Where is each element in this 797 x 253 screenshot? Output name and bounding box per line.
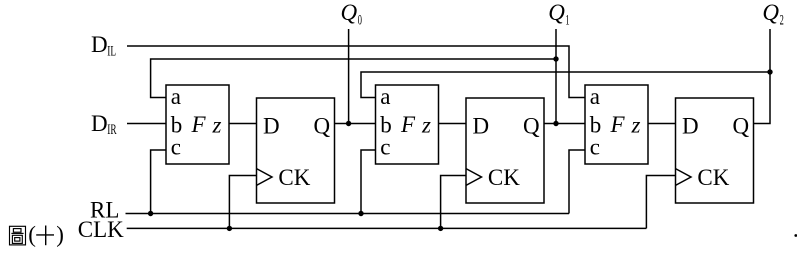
svg-text:(: (	[28, 222, 36, 247]
svg-text:IR: IR	[107, 121, 117, 138]
svg-text:D: D	[91, 111, 108, 136]
svg-text:D: D	[682, 114, 699, 139]
svg-text:IL: IL	[107, 42, 116, 59]
svg-text:Q: Q	[341, 0, 358, 25]
svg-text:2: 2	[780, 11, 784, 28]
svg-text:CLK: CLK	[78, 217, 124, 242]
svg-text:a: a	[380, 84, 390, 109]
svg-text:z: z	[631, 113, 641, 138]
svg-text:Q: Q	[314, 114, 331, 139]
svg-text:CK: CK	[488, 165, 520, 190]
svg-text:1: 1	[565, 11, 569, 28]
svg-text:z: z	[421, 113, 431, 138]
svg-text:F: F	[610, 112, 626, 137]
svg-text:D: D	[263, 114, 280, 139]
svg-text:c: c	[590, 135, 600, 160]
svg-text:a: a	[590, 84, 600, 109]
svg-text:D: D	[473, 114, 490, 139]
svg-text:0: 0	[358, 11, 362, 28]
svg-text:CK: CK	[697, 165, 729, 190]
svg-text:Q: Q	[548, 0, 565, 25]
svg-text:F: F	[400, 112, 416, 137]
svg-text:Q: Q	[733, 114, 750, 139]
svg-text:Q: Q	[762, 0, 779, 25]
svg-text:Q: Q	[523, 114, 540, 139]
svg-text:a: a	[171, 84, 181, 109]
svg-text:D: D	[91, 32, 108, 57]
svg-text:F: F	[191, 112, 207, 137]
svg-text:z: z	[212, 113, 222, 138]
svg-text:CK: CK	[278, 165, 310, 190]
svg-text:c: c	[380, 135, 390, 160]
svg-text:): )	[56, 222, 64, 247]
svg-text:c: c	[171, 135, 181, 160]
